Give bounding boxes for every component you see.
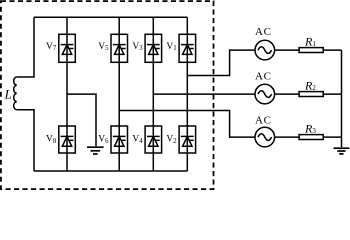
svg-text:AC: AC — [255, 26, 272, 38]
svg-text:AC: AC — [255, 71, 272, 83]
svg-text:AC: AC — [255, 114, 272, 126]
svg-text:L: L — [4, 87, 12, 102]
